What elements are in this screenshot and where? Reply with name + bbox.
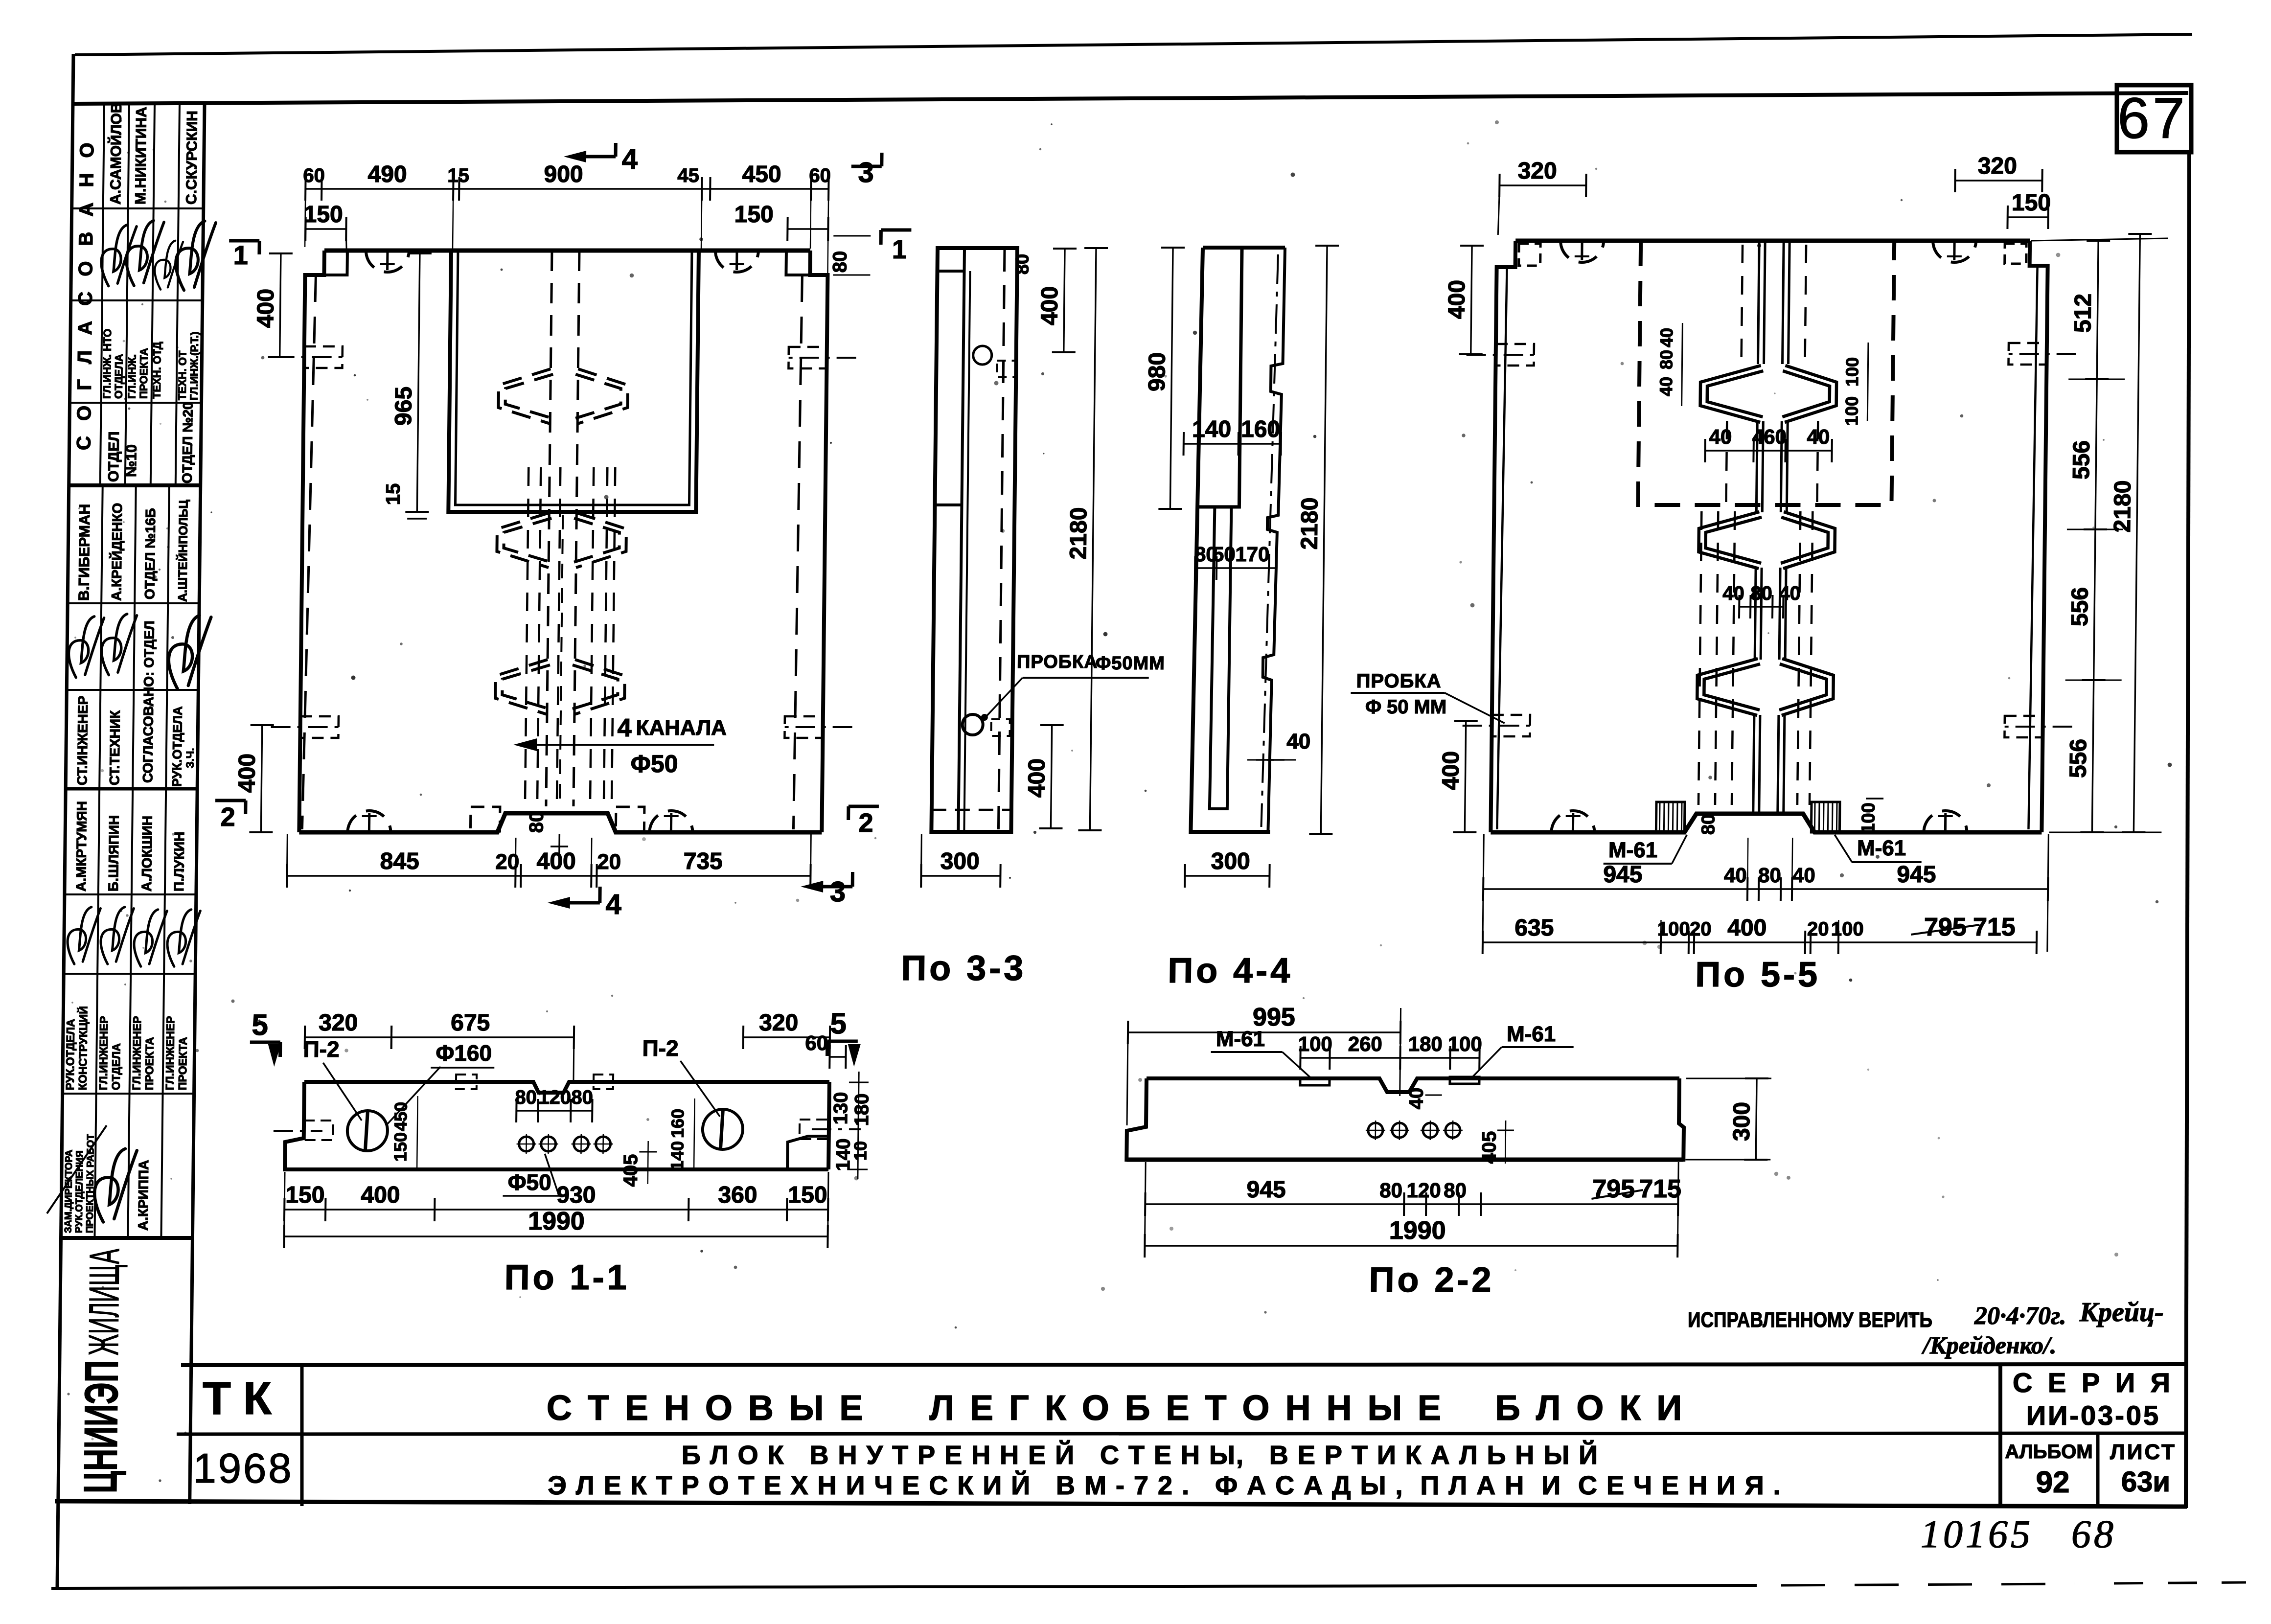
svg-text:КОНСТРУКЦИЙ: КОНСТРУКЦИЙ: [76, 1006, 90, 1090]
1-1 dim 675: [391, 1036, 574, 1038]
view1 section mark 2 left: [215, 799, 246, 802]
svg-text:150: 150: [390, 1132, 411, 1162]
5-5 top channel side dashes: [1742, 245, 1743, 363]
svg-text:40: 40: [1709, 425, 1732, 448]
5-5 hexagon bulges solid double: [1700, 366, 1836, 422]
svg-text:ИСПРАВЛЕННОМУ ВЕРИТЬ: ИСПРАВЛЕННОМУ ВЕРИТЬ: [1688, 1308, 1932, 1332]
1-1 dim 80 120 80: [516, 1110, 592, 1111]
svg-text:512: 512: [2070, 294, 2096, 333]
view1 dim 400 left top: [280, 253, 281, 357]
1-1 dim 1990: [284, 1235, 828, 1237]
view1 bottom dashed squares: [470, 807, 500, 831]
svg-text:1: 1: [892, 235, 907, 264]
view 5-5 group: [1348, 153, 2169, 994]
stray pen stroke: [47, 1125, 107, 1213]
view1 section mark 1 left: [229, 239, 259, 243]
svg-text:140: 140: [1192, 416, 1232, 442]
svg-text:3: 3: [830, 876, 846, 908]
4-4 dim 980: [1170, 248, 1173, 509]
2-2 M61 plates: [1300, 1078, 1330, 1085]
title block verticals: [300, 1365, 304, 1506]
svg-text:4: 4: [621, 143, 638, 175]
svg-text:2180: 2180: [1296, 498, 1323, 550]
svg-text:735: 735: [683, 848, 723, 874]
4-4 dim 300: [1185, 875, 1269, 876]
svg-text:М.НИКИТИНА: М.НИКИТИНА: [133, 107, 150, 205]
svg-text:ИИ-03-05: ИИ-03-05: [2026, 1400, 2160, 1431]
4-4 bottom edge: [1191, 830, 1270, 834]
view1 dim 965: [417, 253, 420, 512]
5-5 channel bundle dashed: [1698, 511, 1701, 805]
view1 bottom edge with trapezoid bump: [299, 813, 822, 832]
svg-text:300: 300: [1729, 1102, 1755, 1141]
svg-text:Φ50: Φ50: [508, 1169, 551, 1195]
2-2 outline: [1147, 1078, 1679, 1092]
svg-text:100: 100: [1657, 918, 1690, 940]
svg-text:40: 40: [1792, 864, 1815, 887]
svg-text:20: 20: [1807, 918, 1829, 940]
view1 witness lines top: [305, 195, 305, 247]
svg-text:Б.ШЛЯПИН: Б.ШЛЯПИН: [106, 815, 122, 892]
5-5 bottom dim row 635-100-20-400-20-100-795: [1483, 941, 2037, 943]
5-5 mid dim 40 80 40: [1739, 606, 1783, 607]
view1 dim 150 right: [787, 228, 828, 229]
svg-text:ТЕХН. ОТ: ТЕХН. ОТ: [176, 350, 189, 400]
svg-text:80: 80: [1758, 864, 1781, 887]
svg-text:320: 320: [319, 1010, 358, 1036]
svg-text:120: 120: [1406, 1179, 1441, 1202]
svg-text:63и: 63и: [2121, 1466, 2170, 1498]
svg-text:П-2: П-2: [642, 1035, 679, 1061]
svg-text:260: 260: [1348, 1032, 1382, 1055]
svg-text:140: 140: [667, 1141, 688, 1170]
svg-text:М-61: М-61: [1608, 838, 1658, 862]
svg-text:С Е Р И Я: С Е Р И Я: [2013, 1367, 2174, 1398]
svg-text:100: 100: [1298, 1032, 1332, 1055]
view1 top dim line 60-490-15-900-45-450-60: [305, 188, 828, 189]
svg-text:РУК.ОТДЕЛА: РУК.ОТДЕЛА: [64, 1019, 77, 1090]
svg-text:ТК: ТК: [203, 1372, 284, 1424]
title block middle line: [177, 1433, 2187, 1434]
svg-text:РУК.ОТДЕЛА: РУК.ОТДЕЛА: [169, 706, 185, 787]
svg-text:795: 795: [1592, 1175, 1635, 1203]
svg-text:А.КРИППА: А.КРИППА: [136, 1160, 152, 1231]
1-1 dim 60 right: [830, 1056, 846, 1057]
svg-text:Э Л Е К Т Р О Т Е Х Н И Ч Е С: Э Л Е К Т Р О Т Е Х Н И Ч Е С К И Й В М …: [548, 1470, 1781, 1500]
1-1 dashed top bits: [456, 1075, 477, 1089]
2-2 channel circles: [1368, 1123, 1383, 1138]
view1 channel dashed verticals: [546, 251, 552, 806]
view1 dashed inner edge lines: [302, 275, 316, 829]
svg-text:150: 150: [285, 1182, 325, 1208]
svg-text:450: 450: [742, 161, 781, 187]
svg-text:80: 80: [1379, 1179, 1402, 1202]
svg-text:С Т Е Н О В Ы Е Л Е Г К О: С Т Е Н О В Ы Е Л Е Г К О Б Е Т О Н Н Ы …: [547, 1389, 1685, 1428]
svg-text:ЛИСТ: ЛИСТ: [2110, 1440, 2177, 1464]
3-3 dim 400 bottom: [1051, 725, 1052, 828]
scan speckle noise: [1467, 142, 1469, 145]
svg-text:ТЕХН. ОТД: ТЕХН. ОТД: [151, 342, 163, 399]
svg-text:320: 320: [1517, 158, 1557, 184]
svg-text:1968: 1968: [193, 1445, 293, 1492]
view1 bottom dim 845-20-400-20-735: [287, 875, 810, 876]
5-5 corner dashed notches: [1519, 244, 1540, 266]
5-5 M-61 anchor plates hatched: [1656, 802, 1685, 832]
3-3 dashed bottom strip: [932, 809, 1011, 811]
svg-text:ПРОЕКТА: ПРОЕКТА: [176, 1037, 189, 1090]
svg-text:5: 5: [830, 1007, 847, 1040]
svg-text:Крейц-: Крейц-: [2079, 1297, 2164, 1327]
view1 hexagon channel bulge 2: [497, 513, 626, 568]
5-5 bottom lifting holes: [1551, 811, 1594, 832]
2-2 bottom dims 945 80 120 80 795: [1145, 1203, 1678, 1205]
svg-text:100: 100: [1447, 1032, 1482, 1055]
5-5 bottom dim row 945-40-80-40-945: [1483, 888, 2048, 890]
svg-text:В.ГИБЕРМАН: В.ГИБЕРМАН: [76, 504, 93, 601]
5-5 hidden niche dashed rect: [1638, 241, 1894, 505]
4-4 dim 140 160: [1184, 443, 1281, 444]
svg-text:СТ.ТЕХНИК: СТ.ТЕХНИК: [107, 710, 123, 785]
svg-text:Б Л О К В Н У Т Р Е Н Н Е Й: Б Л О К В Н У Т Р Е Н Н Е Й С Т Е Н Ы, В…: [682, 1440, 1599, 1470]
svg-text:170: 170: [1235, 543, 1270, 566]
svg-text:СТ.ИНЖЕНЕР: СТ.ИНЖЕНЕР: [74, 696, 91, 785]
svg-text:М-61: М-61: [1216, 1027, 1265, 1051]
svg-text:10165 68: 10165 68: [1921, 1513, 2116, 1556]
svg-text:460: 460: [1752, 425, 1787, 448]
5-5 channel solid double lines: [1758, 241, 1760, 364]
svg-text:150: 150: [2012, 190, 2051, 216]
svg-text:2180: 2180: [1065, 507, 1092, 560]
view1 side cable notches: [304, 346, 342, 368]
svg-text:40: 40: [1779, 583, 1801, 604]
svg-text:10: 10: [850, 1141, 870, 1161]
svg-text:360: 360: [718, 1182, 757, 1208]
5-5 top edge: [1515, 239, 2030, 243]
svg-text:ГЛ.ИНЖЕНЕР: ГЛ.ИНЖЕНЕР: [163, 1016, 177, 1090]
svg-text:556: 556: [2065, 739, 2092, 778]
1-1 side notch dashes right: [812, 1128, 861, 1130]
svg-text:ПРОЕКТА: ПРОЕКТА: [143, 1037, 156, 1090]
svg-text:400: 400: [1024, 758, 1050, 798]
3-3 dim 2180: [1090, 248, 1096, 830]
svg-text:КАНАЛА: КАНАЛА: [636, 716, 727, 740]
5-5 right edge: [2023, 241, 2048, 832]
svg-text:556: 556: [2068, 440, 2095, 480]
4-4 dim 80 50 170: [1195, 567, 1276, 569]
sidebar signatures block 3: [57, 902, 114, 967]
view1 niche opening (double walls): [448, 251, 699, 512]
view 1 elevation group: [214, 143, 912, 920]
view1 dim 150 left: [305, 228, 346, 229]
svg-text:965: 965: [390, 387, 417, 426]
sidebar signatures block 2: [57, 611, 118, 681]
5-5 inner edge lines: [1497, 267, 1507, 829]
5-5 bottom edge with bump: [1491, 814, 2042, 832]
svg-text:4: 4: [605, 889, 621, 920]
svg-text:40: 40: [1405, 1088, 1427, 1109]
svg-text:2: 2: [858, 808, 873, 838]
sheet number box 67: [2117, 85, 2191, 152]
svg-text:ОТДЕЛ №16Б: ОТДЕЛ №16Б: [142, 508, 158, 599]
svg-text:40: 40: [1722, 583, 1744, 604]
5-5 side notches: [1495, 344, 1534, 366]
svg-text:945: 945: [1246, 1177, 1286, 1203]
svg-text:160: 160: [667, 1109, 688, 1138]
svg-text:1990: 1990: [528, 1207, 585, 1235]
view1 section mark 3 top: [880, 153, 883, 166]
plan 1-1 group: [247, 1007, 873, 1297]
CNIIEP ZHILISHcha logo: [74, 1249, 129, 1493]
svg-text:Φ50: Φ50: [631, 750, 678, 778]
sidebar stamp table: [44, 102, 234, 1504]
1-1 small channel circles: [519, 1137, 533, 1151]
view1 block outline: [324, 249, 810, 253]
3-3 plug circles: [973, 346, 992, 365]
svg-text:ЦНИИЭП: ЦНИИЭП: [74, 1360, 128, 1493]
sidebar columns lower: [94, 485, 102, 1238]
svg-text:Φ160: Φ160: [436, 1040, 492, 1066]
svg-text:П.ЛУКИН: П.ЛУКИН: [171, 832, 187, 892]
2-2 dim 100 260 180 100: [1300, 1057, 1479, 1058]
svg-text:300: 300: [1211, 848, 1250, 874]
5-5 top lifting holes: [1560, 241, 1604, 262]
svg-text:Φ 50 ММ: Φ 50 ММ: [1365, 696, 1447, 718]
view1 section mark 3 bottom: [851, 872, 854, 887]
view1 dim 80 top right: [833, 235, 871, 237]
3-3 dashed channel line: [998, 248, 1005, 832]
4-4 niche wall: [1197, 248, 1242, 507]
svg-text:400: 400: [1444, 280, 1470, 319]
svg-text:4: 4: [617, 714, 632, 742]
svg-text:930: 930: [556, 1182, 596, 1208]
view1 hexagon channel bulge 1: [498, 369, 628, 424]
3-3 mid step line: [935, 503, 962, 506]
5-5 witness lines bottom: [1747, 838, 1748, 895]
svg-text:320: 320: [1977, 153, 2017, 179]
1-1 P2 conduit circles: [347, 1111, 388, 1151]
svg-text:400: 400: [252, 289, 279, 328]
5-5 dim 150 right: [2008, 216, 2048, 218]
title block bottom line: [55, 1501, 2187, 1507]
svg-text:20·4·70г.: 20·4·70г.: [1974, 1302, 2066, 1330]
view1 top lifting holes: [366, 251, 409, 272]
svg-text:№10: №10: [123, 444, 140, 477]
svg-text:АЛЬБОМ: АЛЬБОМ: [2005, 1441, 2092, 1463]
svg-text:20: 20: [597, 850, 621, 874]
3-3 outline: [931, 248, 1017, 832]
svg-text:С.СКУРСКИН: С.СКУРСКИН: [184, 111, 201, 205]
1-1 side notch dashes left: [274, 1130, 322, 1132]
3-3 dim 400 top: [1064, 249, 1065, 352]
svg-text:/Крейденко/.: /Крейденко/.: [1921, 1331, 2056, 1359]
svg-text:С О Г Л А С О В А Н О: С О Г Л А С О В А Н О: [73, 137, 98, 450]
svg-text:490: 490: [367, 161, 407, 187]
svg-text:ОТДЕЛА: ОТДЕЛА: [110, 1043, 123, 1090]
svg-text:100: 100: [1841, 396, 1862, 426]
svg-text:А.ЛОКШИН: А.ЛОКШИН: [139, 816, 155, 892]
svg-text:По 4-4: По 4-4: [1168, 951, 1293, 990]
outer top border: [75, 34, 2192, 55]
svg-text:М-61: М-61: [1507, 1022, 1556, 1046]
5-5 top dim 320 left: [1499, 184, 1586, 186]
view1 top corner notch rects: [324, 252, 347, 275]
right border: [2186, 152, 2189, 1508]
svg-text:400: 400: [536, 848, 576, 874]
5-5 dim 400 top left: [1471, 246, 1472, 354]
2-2 dim 1990: [1145, 1245, 1677, 1246]
svg-text:400: 400: [1438, 751, 1464, 790]
4-4 channel U: [1210, 507, 1232, 809]
2-2 dim 995: [1128, 1031, 1400, 1033]
svg-text:По 2-2: По 2-2: [1369, 1260, 1494, 1300]
svg-text:400: 400: [234, 754, 260, 793]
svg-text:80: 80: [1698, 814, 1719, 835]
svg-text:556: 556: [2067, 587, 2093, 626]
sidebar row lines: [72, 207, 204, 209]
svg-text:ГЛ.ИНЖ. НТО: ГЛ.ИНЖ. НТО: [101, 329, 114, 399]
svg-text:67: 67: [2117, 86, 2187, 151]
svg-text:845: 845: [380, 848, 419, 874]
svg-text:ГЛ.ИНЖ.: ГЛ.ИНЖ.: [126, 354, 138, 399]
svg-text:ГЛ.ИНЖЕНЕР: ГЛ.ИНЖЕНЕР: [97, 1016, 111, 1090]
view1 section mark 4 top: [614, 143, 618, 157]
1-1 right foot step: [787, 1136, 829, 1169]
svg-text:715: 715: [1973, 913, 2016, 941]
5-5 dim 40-460-40: [1705, 450, 1832, 451]
svg-text:405: 405: [620, 1154, 642, 1187]
svg-text:80: 80: [526, 811, 547, 833]
svg-text:150: 150: [734, 202, 774, 228]
5-5 dim 400 bottom left: [1465, 721, 1466, 832]
svg-text:100: 100: [1831, 918, 1864, 940]
svg-text:715: 715: [1639, 1175, 1681, 1203]
svg-text:675: 675: [451, 1010, 490, 1036]
svg-text:80: 80: [1750, 583, 1772, 604]
svg-text:150: 150: [788, 1182, 827, 1208]
svg-text:80: 80: [1656, 350, 1676, 369]
1-1 bottom dims 150 400 930 360 150: [284, 1209, 828, 1210]
sidebar columns upper: [100, 104, 104, 485]
svg-text:А.МКРТУМЯН: А.МКРТУМЯН: [73, 801, 90, 892]
svg-text:З.Ч.: З.Ч.: [184, 748, 196, 768]
3-3 top step: [938, 270, 964, 273]
view1 section mark 1 right: [881, 229, 911, 232]
svg-text:А.ШТЕЙНПОЛЬЦ: А.ШТЕЙНПОЛЬЦ: [175, 500, 190, 602]
view1 channel bundle dashed: [525, 467, 528, 806]
svg-text:А.КРЕЙДЕНКО: А.КРЕЙДЕНКО: [108, 503, 125, 601]
svg-text:15: 15: [382, 483, 404, 505]
view1 section mark 2 right: [849, 805, 879, 808]
svg-text:180: 180: [851, 1094, 873, 1126]
svg-text:Φ50ММ: Φ50ММ: [1096, 653, 1165, 674]
svg-text:400: 400: [1727, 915, 1767, 941]
svg-text:80: 80: [1444, 1179, 1467, 1202]
svg-text:ПРОЕКТА: ПРОЕКТА: [138, 348, 150, 399]
1-1 dim 320 top: [305, 1036, 391, 1038]
svg-text:150: 150: [303, 202, 343, 228]
section 3-3 group: [901, 248, 1170, 988]
3-3 inner wall lines: [958, 248, 964, 832]
svg-text:20: 20: [1690, 918, 1712, 940]
svg-text:По 5-5: По 5-5: [1695, 955, 1821, 994]
svg-text:635: 635: [1514, 915, 1554, 941]
svg-text:180: 180: [1408, 1032, 1443, 1055]
svg-text:100: 100: [1858, 802, 1879, 833]
svg-text:92: 92: [2036, 1465, 2070, 1499]
svg-text:1990: 1990: [1389, 1216, 1446, 1245]
svg-text:400: 400: [1036, 286, 1063, 325]
svg-text:ОТДЕЛА: ОТДЕЛА: [113, 354, 125, 399]
svg-text:П-2: П-2: [303, 1036, 340, 1062]
svg-text:15: 15: [447, 165, 469, 186]
svg-text:1: 1: [233, 241, 249, 270]
view1 witness lines bottom: [515, 838, 516, 882]
5-5 right dim column 512-556-556-556: [2092, 241, 2098, 832]
outer left border: [57, 54, 73, 1587]
svg-text:60: 60: [303, 165, 325, 186]
svg-text:ГЛ.ИНЖЕНЕР: ГЛ.ИНЖЕНЕР: [130, 1016, 144, 1090]
svg-text:900: 900: [544, 161, 583, 187]
svg-text:40: 40: [1286, 730, 1310, 754]
view1 label 4 kanala f50: [530, 744, 714, 746]
svg-text:40: 40: [1656, 328, 1676, 347]
svg-text:20: 20: [495, 850, 519, 874]
2-2 dim 300 right: [1756, 1078, 1757, 1160]
view1 bottom lifting holes: [347, 811, 390, 832]
section 4-4 group: [1138, 246, 1339, 990]
svg-text:2180: 2180: [2110, 480, 2136, 533]
svg-text:ЗАМ.ДИРЕКТОРА: ЗАМ.ДИРЕКТОРА: [63, 1150, 75, 1233]
svg-text:СОГЛАСОВАНО: ОТДЕЛ: СОГЛАСОВАНО: ОТДЕЛ: [140, 620, 157, 783]
svg-text:По 3-3: По 3-3: [901, 949, 1027, 988]
svg-text:80: 80: [571, 1087, 593, 1108]
svg-text:М-61: М-61: [1857, 836, 1906, 860]
plan 2-2 group: [1125, 1003, 1772, 1300]
1-1 outline: [304, 1082, 829, 1093]
svg-text:По 1-1: По 1-1: [504, 1258, 630, 1297]
svg-text:ОТДЕЛ: ОТДЕЛ: [106, 432, 122, 482]
svg-text:980: 980: [1144, 352, 1170, 391]
svg-text:ПРОБКА: ПРОБКА: [1356, 670, 1442, 692]
view1 hexagon channel bulge 3: [495, 660, 625, 714]
view1 dim 400 left bottom: [261, 725, 262, 832]
3-3 dim 300: [921, 875, 1000, 876]
view1 section mark 4 bottom: [598, 887, 601, 903]
svg-text:60: 60: [805, 1031, 828, 1054]
svg-text:300: 300: [940, 848, 980, 874]
svg-text:130: 130: [830, 1092, 852, 1125]
svg-text:400: 400: [361, 1182, 400, 1208]
svg-text:ОТДЕЛ №20: ОТДЕЛ №20: [180, 402, 196, 483]
5-5 dim 2180 right: [2133, 234, 2140, 832]
svg-text:80: 80: [1012, 254, 1032, 274]
3-3 side notch dashes: [997, 361, 1015, 377]
5-5 left edge: [1491, 241, 1515, 832]
svg-text:40: 40: [1807, 425, 1830, 448]
svg-text:945: 945: [1897, 862, 1936, 888]
svg-text:РУК.ОТДЕЛЕНИЯ: РУК.ОТДЕЛЕНИЯ: [74, 1150, 86, 1233]
sidebar signatures row 2: [90, 220, 151, 289]
svg-text:40: 40: [1656, 377, 1676, 396]
4-4 outline: [1203, 246, 1285, 250]
svg-text:ГЛ.ИНЖ.(Р.Т.): ГЛ.ИНЖ.(Р.Т.): [188, 332, 201, 400]
svg-text:60: 60: [809, 165, 831, 186]
svg-text:320: 320: [759, 1010, 799, 1036]
svg-text:160: 160: [1241, 416, 1281, 442]
svg-text:2: 2: [220, 802, 235, 832]
bottom border: [51, 1585, 1757, 1588]
4-4 dim 2180: [1321, 246, 1327, 834]
